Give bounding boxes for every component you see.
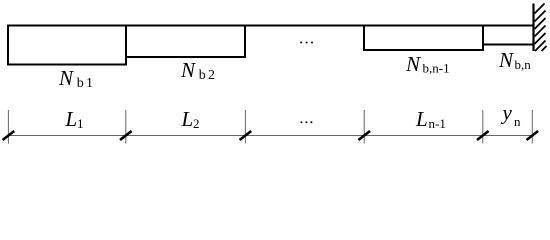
node edge between N_b,n-1 and N_b,n <box>482 25 484 52</box>
dimension tick 2 <box>125 110 127 144</box>
bar segment N_b1 left edge <box>7 25 9 66</box>
dimension tick 4 <box>363 110 365 144</box>
svg-text:1: 1 <box>77 116 84 131</box>
wall support line <box>532 4 534 52</box>
bar segment N_b2 bottom edge <box>125 56 246 58</box>
svg-text:b1: b1 <box>77 76 95 91</box>
bar segment N_b,n-1 bottom edge <box>363 49 484 51</box>
dimension tick 6 <box>531 110 533 144</box>
dimension tick 1 <box>7 110 9 144</box>
svg-text:y: y <box>501 101 513 125</box>
svg-text:L: L <box>181 107 194 131</box>
svg-text:b,n: b,n <box>515 57 532 72</box>
dimension tick 5 <box>482 110 484 144</box>
svg-text:N: N <box>58 66 74 90</box>
wall hatch 7 corner <box>542 46 547 51</box>
wall hatch 6 <box>535 41 546 52</box>
wall hatch 3 <box>535 18 546 29</box>
svg-text:b,n-1: b,n-1 <box>423 60 450 75</box>
wall hatch 5 <box>535 33 546 44</box>
node edge between N_b1 and N_b2 <box>125 25 127 66</box>
node edge left of N_b,n-1 <box>363 25 365 52</box>
wall hatch 1 <box>535 4 545 14</box>
svg-text:n-1: n-1 <box>429 116 446 131</box>
bar segment N_b1 bottom edge <box>7 64 127 66</box>
svg-text:N: N <box>180 58 196 82</box>
svg-text:2: 2 <box>193 116 200 131</box>
ellipsis dots upper <box>300 42 302 44</box>
dimension tick 3 <box>244 110 246 144</box>
svg-text:L: L <box>65 107 78 131</box>
wall hatch 4 <box>535 26 546 37</box>
svg-text:n: n <box>514 114 521 129</box>
bar segment N_b,n bottom edge <box>482 44 535 46</box>
svg-text:N: N <box>405 52 421 76</box>
svg-text:N: N <box>498 48 514 72</box>
wire top chord line <box>7 25 535 27</box>
node edge right of N_b2 <box>244 25 246 59</box>
wall hatch 2 <box>535 11 546 22</box>
svg-text:b2: b2 <box>199 68 217 83</box>
dimension line <box>8 135 532 137</box>
svg-text:L: L <box>415 107 428 131</box>
ellipsis dots lower <box>300 121 302 123</box>
